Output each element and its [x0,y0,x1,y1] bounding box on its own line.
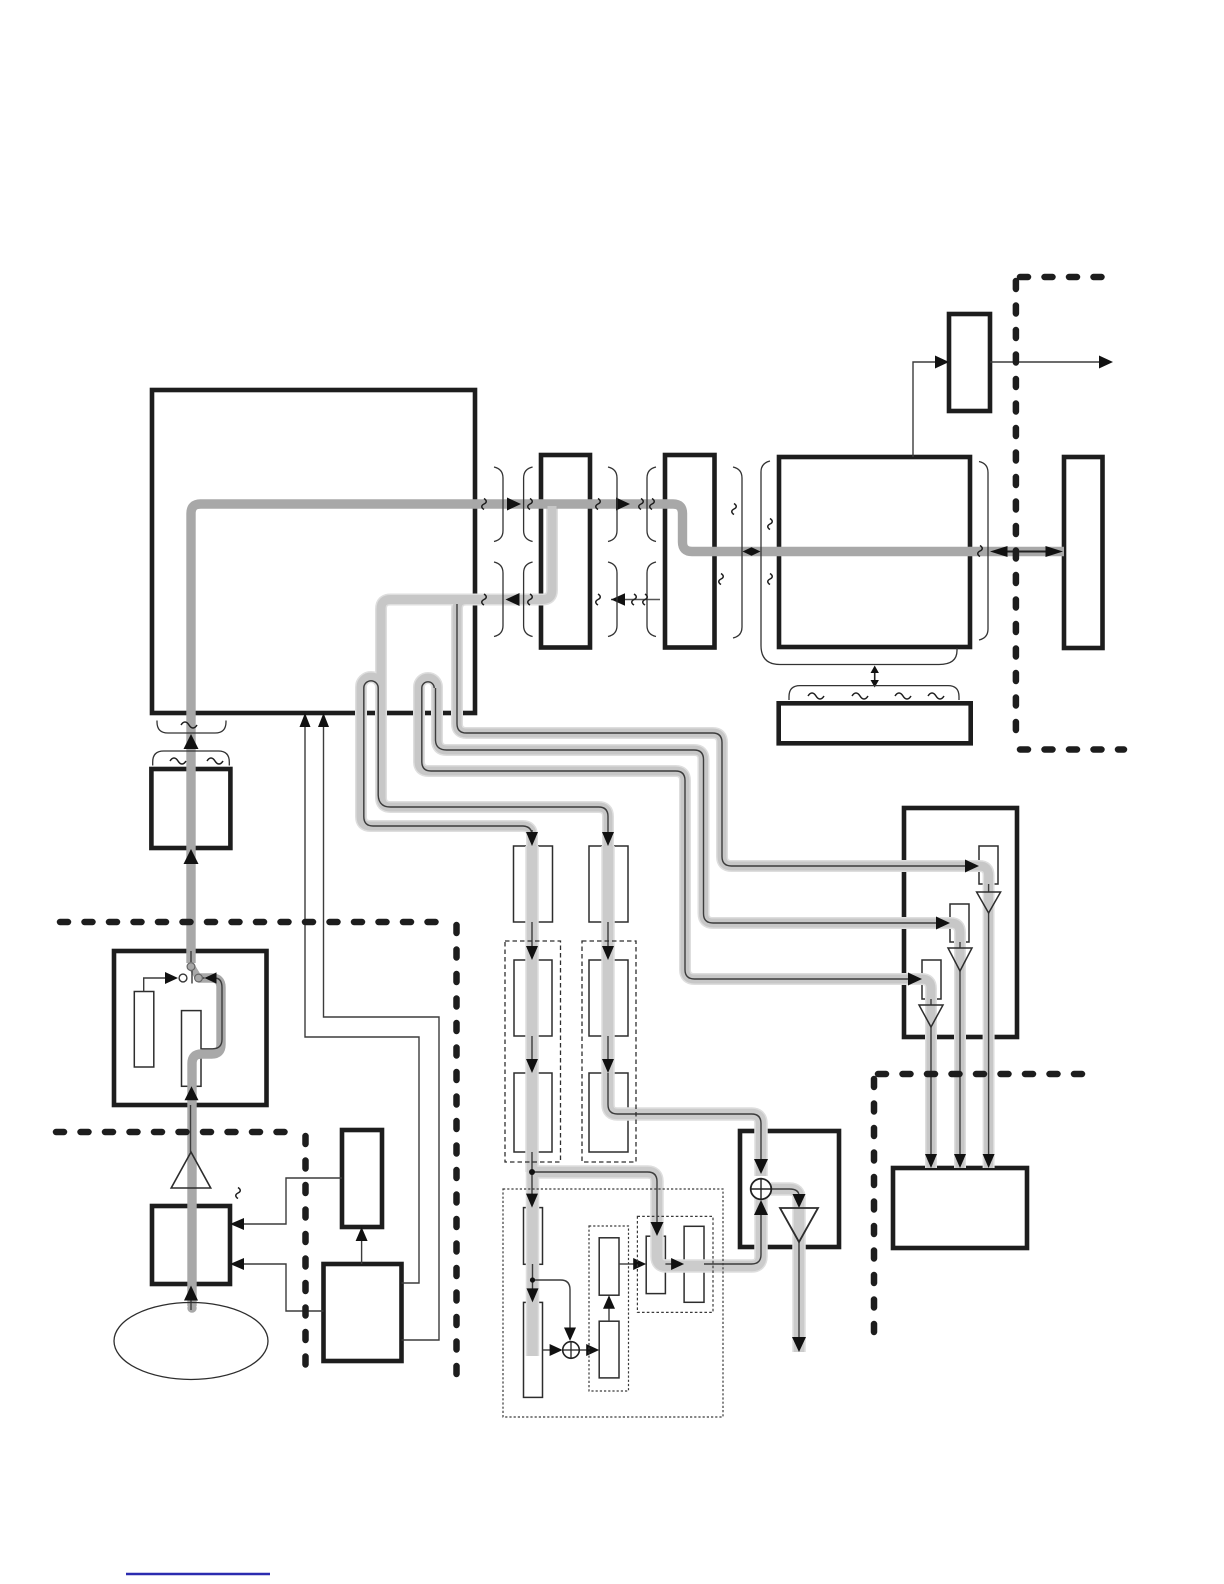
TX block H [599,1238,619,1295]
TX block D [524,1208,543,1265]
thick dashed boundary: antenna element region [56,1132,306,1378]
arrowhead: summing2 output right into G [586,1344,599,1356]
RX chain1 box B1 [514,960,552,1036]
amplifier triangle under PA driver 3 [919,1005,943,1027]
wire: U-turn bus loop 2 left leg to PA driver 3 [419,678,931,1168]
cable squiggle near antenna [236,1188,241,1199]
double arrow: between RF IC bracket and memory bracket [871,666,879,688]
wire: main TX signal bus from antenna line up through main box to RF IC and right unit [191,504,1064,963]
hyperlink underline bottom left [126,1573,270,1575]
arrowhead: G up into H [603,1295,615,1309]
bracket: around RF IC left and bottom [761,461,957,665]
arrowhead: line into PA driver 2 [936,917,950,930]
arrowhead: chain2 B2 to C2 [602,1059,614,1073]
dashed rect around RX chain2 blocks B2 C2 [582,941,636,1162]
arrowhead: PA output 2 into output box [954,1154,966,1168]
wire: control vertical box to antenna matching box [242,1178,342,1224]
wire: RX chain1 vertical bus [527,846,538,1172]
arrowhead: chain2 bus down into summing node top [754,1159,768,1174]
arrowhead: main bus up into switch inner resistor [185,1086,199,1100]
wire: dark centerline of U-loop2 right leg to PA driver 2 [436,688,939,923]
wire: switch pivot tick below pole [191,970,193,984]
arrowhead: line into clock buffer [935,356,949,369]
bracket: S1 to S2 lower pair [608,562,617,637]
arrowhead: TX bus right before S2 [616,498,630,511]
baseband/system LSI main box [152,390,475,713]
wire: control main box up to vertical box [361,1240,363,1264]
wide memory box under RF IC [779,703,971,743]
switch box inner resistor right [182,1011,202,1087]
wire: clock buffer output to right edge [990,361,1100,363]
arrowhead: branch bus down into F1 [651,1222,664,1236]
arrowhead: line into PA driver 3 [908,973,922,986]
bracket: tall bracket right of S2 [733,467,742,638]
antenna triangle [171,1152,211,1188]
bracket: rounded top over memory box [789,686,959,700]
wire: left resistor to open contact with arrow tail [144,978,167,992]
arrowhead: line into PA driver 1 [965,860,979,873]
double arrow: between RF IC bracket and right unit [990,546,1063,557]
wire: control line 2 from control box to main box [324,725,440,1340]
arrowhead: RX chain1 feed down into A1 [526,832,538,846]
wire: RX return bus from S1 back into main box, branch down at x457 to PA driver 1 [457,506,989,1168]
bottom right output box [893,1168,1027,1248]
wire: chain1 branch centerline to F1 [532,1172,657,1224]
RX chain2 box C2 [589,1073,628,1152]
bracket: rounded top over filter box [153,751,230,766]
PA driver box 2 [950,904,969,942]
wire: RX chain1 bus stub into blocks D and E [527,1172,538,1356]
arrowhead: control line left into matching box upper [230,1218,244,1230]
RX chain1 filter box A1 [514,846,553,922]
wire: summing1 output centerline through amplifier [771,1189,799,1339]
wire: switch box internal Z path of main bus [192,978,221,1306]
arrowhead: return bus left into main box [506,593,520,606]
wire: F1 to F2 line [665,1263,672,1265]
arrowhead: PA output 3 into output box [925,1154,937,1168]
wire: control main box to antenna matching box [242,1264,324,1311]
RX chain2 box B2 [589,960,628,1036]
switch open contact circle [179,974,187,982]
arrowhead: switch right contact line pointing left [205,972,217,983]
arrowhead: block D to E [527,1288,539,1302]
wire: dark centerline of return-bus branch to PA driver 1 [457,604,967,866]
wire: thin return stub right of S1 lower bus [611,599,660,601]
TX block E [524,1302,543,1397]
antenna ground ellipse [114,1303,268,1380]
tildes on filter box bracket [170,758,186,764]
double arrow: between S2 and RF IC on bus [743,547,761,556]
wire: RX chain1 branch to TX block F1 then to summing input [532,1172,761,1266]
amplifier triangle under PA driver 2 [948,948,972,971]
cable squiggle marks near RF IC interface [732,504,737,515]
wire: dark centerline of U-loop1 and RX chain1 feed [364,681,532,836]
wire: RX chain1 arrow tails between blocks [532,922,570,1329]
wire: U-turn bus loop 1 inside main box feeding RX chain1 [361,677,532,846]
summing node 2 with plus [563,1342,580,1359]
dotted rect around blocks H G [589,1226,629,1391]
arrowhead: chain1 into block D [526,1194,538,1208]
arrowhead: chain1 A1 to B1 [526,946,538,960]
thick dashed boundary: top right region [1016,277,1124,750]
PA driver box 3 [922,960,941,999]
arrowhead: control line 2 up into main box [318,713,329,727]
wire: switch arm bus segment [191,966,199,979]
interface IC S2 [665,455,715,648]
bracket: S1 to S2 upper pair [608,467,617,542]
RF transceiver IC box [779,457,970,647]
wire: RF IC top to clock buffer box [913,362,937,457]
arrowhead: F1 output right into F2 [671,1258,684,1270]
PA driver box 1 [979,846,998,884]
bus glow underlay [361,506,989,1356]
wire: F2 output centerline to summing1 bottom [704,1214,761,1264]
arrowhead: main bus up into main box [184,734,199,749]
bracket: main box to S1 upper pair [494,467,503,542]
arrowhead: main bus up into matching box [184,1286,198,1301]
amplifier triangle under PA driver 1 [977,892,1001,913]
summing node 1 with plus [751,1179,772,1200]
arrowhead: return stub left toward S1 [611,593,625,606]
wire: PA driver 2 output line down to output box [959,942,961,1156]
control unit main box [324,1264,402,1361]
wire: PA driver 1 output line down to output box [988,884,990,1156]
wire: summing2 to G line [579,1349,587,1351]
TX block F2 [684,1226,704,1302]
tilde on U bracket under main box [181,722,197,728]
wire: E to summing2 line [543,1349,551,1351]
arrowhead: final output down [792,1337,806,1352]
thick dashed boundary: bottom right corner region [874,1074,1085,1338]
TX block F1 [646,1236,665,1293]
arrowhead: H output right into F1 [633,1258,646,1270]
control unit small vertical box [342,1130,382,1227]
wire: G to H line [608,1307,610,1321]
wire: rounded bus end cap inside ellipse [187,1303,196,1312]
right-hand tall box (external unit) [1064,457,1103,648]
combiner box with summing node [740,1131,839,1247]
arrowhead: PA output 1 into output box [983,1154,995,1168]
bracket: main box to S1 lower pair [494,562,503,637]
cable squiggle marks on TX bus [482,499,487,510]
bracket: U under main box [157,721,226,734]
dashed rect around RX chain1 blocks B1 C1 [505,941,561,1162]
dotted rect around blocks F1 F2 [637,1216,713,1312]
wire: control line 1 from control box to main box [305,725,419,1283]
bracket: right of RF IC [979,462,988,641]
arrowhead: main bus up into filter box [184,849,199,864]
switch pole contact circle [187,963,195,971]
node: junction dot chain1 branch [529,1169,535,1175]
arrowhead: chain1 B1 to C1 [526,1059,538,1073]
tildes on memory box bracket [808,693,824,699]
TX block G [599,1321,619,1378]
wire: U-turn bus loop 2 right leg to PA driver 2 [437,687,960,1168]
arrowhead: RX chain2 feed down into A2 [602,832,614,846]
arrowhead: F2 line up into summing node bottom [754,1200,768,1215]
arrowhead: control line 1 up into main box [300,713,311,727]
arrowhead: clock output at right [1099,356,1113,369]
arrowhead: TX bus right before S1 [507,498,521,511]
small top box (clock buffer) [949,314,990,411]
wire: RX return bus continuing left and down at x381 to RX chain2 feed [381,600,608,847]
wire: dark centerline of U-loop2 and line to PA driver 3 [422,682,910,979]
wire: dark centerline right leg of U-loop1 to RX chain2 feed [378,688,608,832]
amplifier triangle in combiner box [780,1208,818,1242]
switch box inner resistor left [134,992,154,1068]
cable squiggle marks on return bus [482,594,487,605]
thick dashed boundary: antenna unit region [60,922,457,1378]
RX chain1 box C1 [514,1073,552,1152]
arrowhead: control box up into vertical box [356,1227,368,1241]
wire: RX chain2 vertical bus turning right to summing node top [608,846,761,1176]
PA module box (staircase) [904,808,1017,1037]
wire: RX chain2 arrow tails and centerline to summing node [608,922,761,1160]
arrowhead: switch left contact feed [165,972,178,984]
wire: closed contact line to right resistor [199,978,223,1049]
arrowhead: summing output down into amplifier [793,1194,806,1208]
antenna matching box [152,1206,230,1284]
wire: matching box up arrow tail [190,1300,192,1310]
dotted rect around TX modulator section [503,1189,723,1417]
RX chain2 filter box A2 [589,846,628,922]
wire: H to F1 line [619,1263,634,1265]
arrowhead: junction down into summing2 [564,1328,576,1342]
switch closed contact circle [195,974,203,982]
arrowhead: E output right into summing2 [550,1344,563,1356]
arrowhead: control line left into matching box lower [230,1258,244,1270]
wire: switch pole line from box top [190,951,192,962]
front-end filter box [151,769,230,848]
wire: PA driver 3 output line down to output box [930,999,932,1156]
wire: antenna feed centerline [190,1105,192,1152]
wire: summing node output bus through amplifier and down [771,1189,799,1352]
arrowhead: chain2 A2 to B2 [602,946,614,960]
node: junction dot below block D [530,1277,535,1282]
interface IC S1 [541,455,590,648]
antenna switch box [114,951,267,1105]
